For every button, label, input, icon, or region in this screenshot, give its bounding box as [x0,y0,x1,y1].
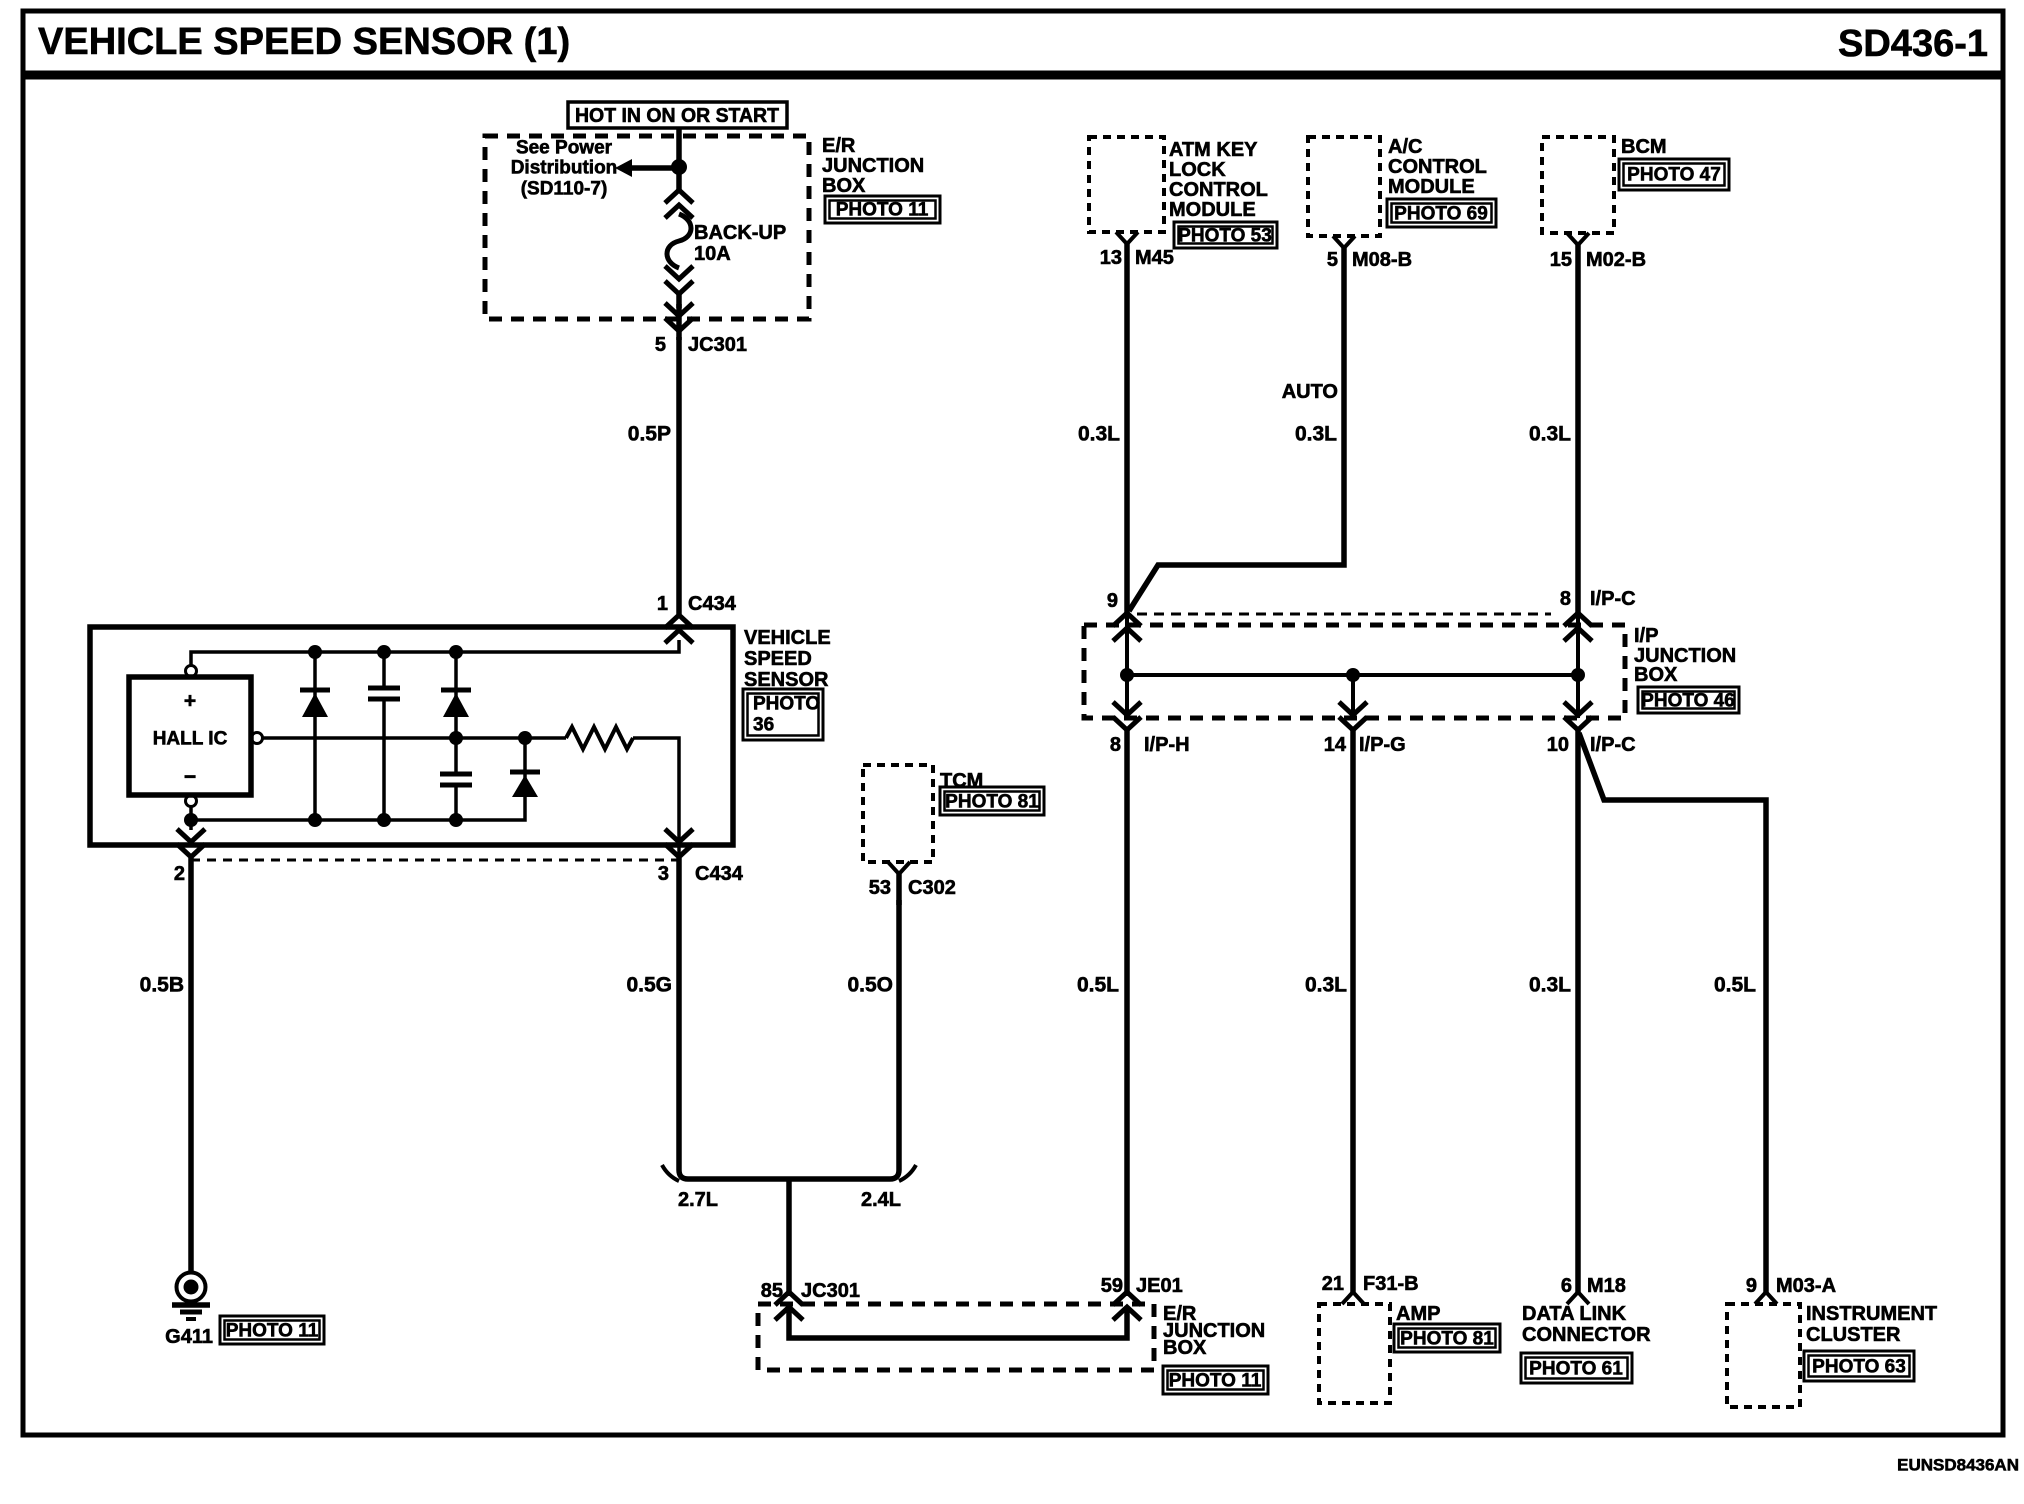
PHOTO 36 box [743,689,823,740]
A/C CONTROL MODULE box (dashed) [1308,137,1380,236]
svg-text:JC301: JC301 [801,1280,860,1302]
PHOTO 11 box (bottom E/R) [1163,1366,1268,1394]
connector F31-B pin 21 (Y into AMP) [1342,1292,1364,1304]
svg-text:BCM: BCM [1621,136,1667,158]
wire 0.5P down to VSS [676,337,682,614]
svg-text:14: 14 [1324,734,1347,756]
connector JC301 pin 85 (into E/R box) [775,1292,803,1320]
E/R junction box label (bottom) [1163,1303,1265,1359]
svg-text:5: 5 [655,334,666,356]
svg-text:MODULE: MODULE [1388,176,1475,198]
connector M03-A pin 9 (Y into cluster) [1755,1292,1777,1304]
option tick 2.7L [662,1165,679,1181]
svg-text:1: 1 [657,593,668,615]
wire bottom rail (return) [191,798,525,830]
connector arrow I/P-C (out of I/P box) [1564,702,1592,730]
wire 0.3L from ATM module [1124,244,1130,614]
svg-text:0.5L: 0.5L [1077,974,1119,997]
svg-text:0.3L: 0.3L [1078,423,1120,446]
svg-text:−: − [184,766,196,789]
pin 5 / JC301 labels [655,334,747,356]
svg-text:PHOTO: PHOTO [753,694,820,715]
pin 53 / C302 labels [869,877,956,899]
connector arrow pin 9 (into I/P box) [1113,613,1141,641]
svg-text:F31-B: F31-B [1363,1273,1419,1295]
PHOTO 81 box (AMP) [1394,1324,1500,1352]
svg-text:A/C: A/C [1388,136,1422,158]
svg-text:BACK-UP: BACK-UP [694,222,786,244]
wire 0.3L from BCM [1575,245,1581,614]
pin 6 / M18 labels [1561,1275,1626,1297]
fuse label BACK-UP 10A [694,222,786,265]
capacitor C2 [440,738,472,820]
PHOTO 61 box [1521,1353,1632,1383]
INSTRUMENT CLUSTER box (dashed) [1727,1304,1800,1407]
svg-text:DATA LINK: DATA LINK [1522,1303,1627,1325]
svg-text:JUNCTION: JUNCTION [822,155,924,177]
svg-text:9: 9 [1107,590,1118,612]
svg-text:I/P-C: I/P-C [1590,588,1636,610]
svg-text:HALL IC: HALL IC [153,729,228,750]
connector JE01 pin 59 (out of E/R box) [1113,1292,1141,1320]
svg-text:PHOTO 11: PHOTO 11 [226,1321,319,1342]
svg-text:PHOTO 63: PHOTO 63 [1812,1357,1906,1378]
svg-text:8: 8 [1560,588,1571,610]
node dots bottom rail [184,813,463,827]
svg-text:10: 10 [1547,734,1569,756]
vehicle speed sensor outer box [90,627,733,845]
connector dashed line (I/P box top) [1137,613,1551,616]
svg-text:2: 2 [174,863,185,885]
svg-text:BOX: BOX [1163,1337,1207,1359]
pin 3 / C434 labels [658,863,744,885]
svg-text:2.4L: 2.4L [861,1189,901,1211]
svg-text:I/P-H: I/P-H [1144,734,1190,756]
svg-text:0.3L: 0.3L [1305,974,1347,997]
svg-text:PHOTO 53: PHOTO 53 [1178,226,1272,247]
merged wire down to JC301 pin 85 [786,1179,792,1296]
wire pin9 to bus [1125,614,1129,718]
See Power Distribution note [511,138,618,200]
capacitor C1 [368,652,400,820]
pin 14 / I/P-G labels [1324,734,1406,756]
svg-text:8: 8 [1110,734,1121,756]
connector C434 pin 3 [665,820,693,858]
resistor R1 [566,727,633,749]
svg-text:M03-A: M03-A [1776,1275,1836,1297]
PHOTO 53 box [1174,222,1277,248]
svg-text:PHOTO 47: PHOTO 47 [1627,165,1721,186]
wire 0.3L to data link connector [1575,730,1581,1292]
svg-text:36: 36 [753,715,774,736]
BCM box (dashed) [1542,137,1614,233]
svg-text:C434: C434 [688,593,737,615]
connector M18 pin 6 (Y) [1567,1292,1589,1304]
pin 15 / M02-B labels [1550,249,1646,271]
svg-text:I/P: I/P [1634,625,1658,647]
svg-text:See Power: See Power [516,138,613,159]
svg-text:CONTROL: CONTROL [1388,156,1487,178]
svg-text:JC301: JC301 [688,334,747,356]
svg-text:0.5L: 0.5L [1714,974,1756,997]
pin 59 / JE01 labels [1101,1275,1183,1297]
pin 85 / JC301 labels [761,1280,860,1302]
connector C434 pin 1 (into sensor box) [665,615,693,643]
wire 0.5L to JE01 [1124,730,1130,1296]
hall ic output pin [252,733,263,744]
option tick 2.4L [899,1165,916,1181]
pin 10 / I/P-C labels [1547,734,1636,756]
svg-text:AMP: AMP [1396,1303,1440,1325]
svg-text:PHOTO 81: PHOTO 81 [1400,1329,1494,1350]
svg-text:BOX: BOX [1634,664,1678,686]
svg-text:VEHICLE: VEHICLE [744,627,831,649]
svg-text:0.3L: 0.3L [1295,423,1337,446]
bus node dots [1120,668,1585,682]
fuse BACK-UP 10A [665,167,693,308]
pin 5 / M08-B labels [1327,249,1412,271]
svg-text:CONTROL: CONTROL [1169,179,1268,201]
hall ic bottom pin [186,796,197,807]
svg-text:13: 13 [1100,247,1122,269]
svg-text:53: 53 [869,877,891,899]
wire from HOT box into E/R box [676,127,682,167]
svg-text:CONNECTOR: CONNECTOR [1522,1324,1651,1346]
PHOTO 11 box (top) [825,196,940,223]
svg-text:0.5O: 0.5O [847,974,893,997]
VEHICLE SPEED SENSOR label [744,627,831,691]
svg-text:AUTO: AUTO [1282,381,1338,403]
HALL IC box [129,677,251,795]
HOT IN ON OR START box [568,102,787,128]
connector M45 pin 13 (Y) [1116,232,1138,244]
svg-text:PHOTO 11: PHOTO 11 [1169,1371,1262,1392]
svg-text:0.3L: 0.3L [1529,974,1571,997]
PHOTO 81 box (TCM) [940,787,1044,815]
I/P junction box (dashed) [1084,625,1625,718]
svg-text:JE01: JE01 [1136,1275,1183,1297]
I/P junction box label [1634,625,1736,686]
svg-text:0.5B: 0.5B [140,974,184,997]
svg-text:0.5G: 0.5G [626,974,672,997]
wire to See Power Distribution (arrow left) [615,159,679,177]
diode D2 [441,652,471,738]
hall ic top pin [186,666,197,677]
svg-text:BOX: BOX [822,175,866,197]
svg-text:9: 9 [1746,1275,1757,1297]
AMP box (dashed) [1319,1304,1390,1403]
svg-text:M45: M45 [1135,247,1174,269]
TCM box (dashed) [863,765,933,862]
connector C434 dashed line [191,859,679,862]
connector arrow I/P-H (out of I/P box) [1113,702,1141,730]
svg-text:PHOTO 81: PHOTO 81 [945,792,1039,813]
pin 1 / C434 labels [657,593,737,615]
E/R junction box label [822,135,924,197]
svg-text:M02-B: M02-B [1586,249,1646,271]
E/R junction box (bottom, dashed) [758,1304,1154,1370]
svg-text:Distribution: Distribution [511,158,618,179]
svg-text:SPEED: SPEED [744,648,812,670]
svg-text:INSTRUMENT: INSTRUMENT [1806,1303,1937,1325]
svg-text:C434: C434 [695,863,744,885]
ATM KEY LOCK CONTROL MODULE box (dashed) [1089,137,1164,232]
pin 21 / F31-B labels [1322,1273,1419,1295]
svg-text:0.3L: 0.3L [1529,423,1571,446]
svg-text:59: 59 [1101,1275,1123,1297]
svg-text:SD436-1: SD436-1 [1838,23,1988,65]
INSTRUMENT CLUSTER label [1806,1303,1937,1346]
PHOTO 11 box (ground) [220,1316,324,1344]
wire 0.5G down from pin 3 [679,858,789,1179]
diode D3 [510,738,540,798]
PHOTO 46 box [1638,687,1739,713]
node dots top rail [308,645,463,659]
pin 8 / I/P-C labels (top) [1560,588,1636,610]
svg-text:PHOTO 61: PHOTO 61 [1529,1359,1623,1380]
svg-text:I/P-G: I/P-G [1359,734,1406,756]
svg-text:CLUSTER: CLUSTER [1806,1324,1901,1346]
svg-text:M18: M18 [1587,1275,1626,1297]
ATM KEY LOCK CONTROL MODULE label [1169,139,1268,221]
svg-text:PHOTO 69: PHOTO 69 [1394,204,1488,225]
svg-text:EUNSD8436AN: EUNSD8436AN [1897,1456,2019,1475]
wire 0.3L from A/C module with jog to pin 9 [1129,248,1344,611]
connector JC301 pin 5 (exit of E/R box) [665,303,693,340]
bus wire inside I/P box [1127,673,1578,677]
svg-text:0.5P: 0.5P [628,423,671,446]
svg-text:G411: G411 [165,1326,213,1348]
svg-text:PHOTO 11: PHOTO 11 [836,200,929,221]
PHOTO 47 box [1619,159,1729,190]
svg-text:I/P-C: I/P-C [1590,734,1636,756]
E/R junction box (top, dashed) [485,136,809,319]
wire bus to I/P-G [1351,675,1355,718]
node: power feed junction dot [671,159,687,175]
branch wire 0.5L to instrument cluster [1579,733,1766,1292]
connector arrow I/P-G (out of I/P box) [1339,702,1367,730]
connector arrow pin 8 I/P-C (into I/P box) [1564,613,1592,641]
wire middle rail (signal) [263,738,679,820]
diode D1 [300,652,330,820]
svg-text:HOT IN ON OR START: HOT IN ON OR START [575,105,779,127]
svg-text:C302: C302 [908,877,956,899]
DATA LINK CONNECTOR label [1522,1303,1651,1346]
ground G411 [172,1273,210,1320]
svg-text:10A: 10A [694,243,731,265]
connector M08-B pin 5 (Y) [1333,236,1355,248]
svg-text:(SD110-7): (SD110-7) [521,179,608,200]
svg-text:E/R: E/R [822,135,856,157]
PHOTO 63 box [1804,1351,1914,1381]
svg-text:15: 15 [1550,249,1572,271]
svg-text:21: 21 [1322,1273,1344,1295]
PHOTO 69 box [1387,199,1496,227]
svg-text:ATM KEY: ATM KEY [1169,139,1258,161]
wire pin8 to bus [1576,614,1580,718]
svg-text:MODULE: MODULE [1169,199,1256,221]
wire 0.5O from TCM [789,900,899,1179]
wire 0.3L to AMP [1350,730,1356,1292]
pin 8 / I/P-H labels [1110,734,1190,756]
svg-text:6: 6 [1561,1275,1572,1297]
connector C302 pin 53 (Y) [888,862,910,905]
svg-text:LOCK: LOCK [1169,159,1226,181]
pin 13 / M45 labels [1100,247,1174,269]
svg-text:VEHICLE SPEED SENSOR (1): VEHICLE SPEED SENSOR (1) [38,21,570,63]
A/C CONTROL MODULE label [1388,136,1487,198]
svg-text:TCM: TCM [940,770,983,792]
svg-text:2.7L: 2.7L [678,1189,718,1211]
connector C434 pin 2 [177,829,205,857]
connector M02-B pin 15 (Y) [1567,233,1589,245]
svg-text:3: 3 [658,863,669,885]
wire 0.5B to ground [188,858,194,1272]
wire top rail (supply) [191,640,679,665]
svg-text:PHOTO 46: PHOTO 46 [1641,691,1735,712]
svg-text:5: 5 [1327,249,1338,271]
svg-text:+: + [184,690,196,713]
node dots middle rail [449,731,532,745]
svg-text:M08-B: M08-B [1352,249,1412,271]
wire inside E/R box [789,1307,1127,1338]
pin 9 / M03-A labels [1746,1275,1836,1297]
